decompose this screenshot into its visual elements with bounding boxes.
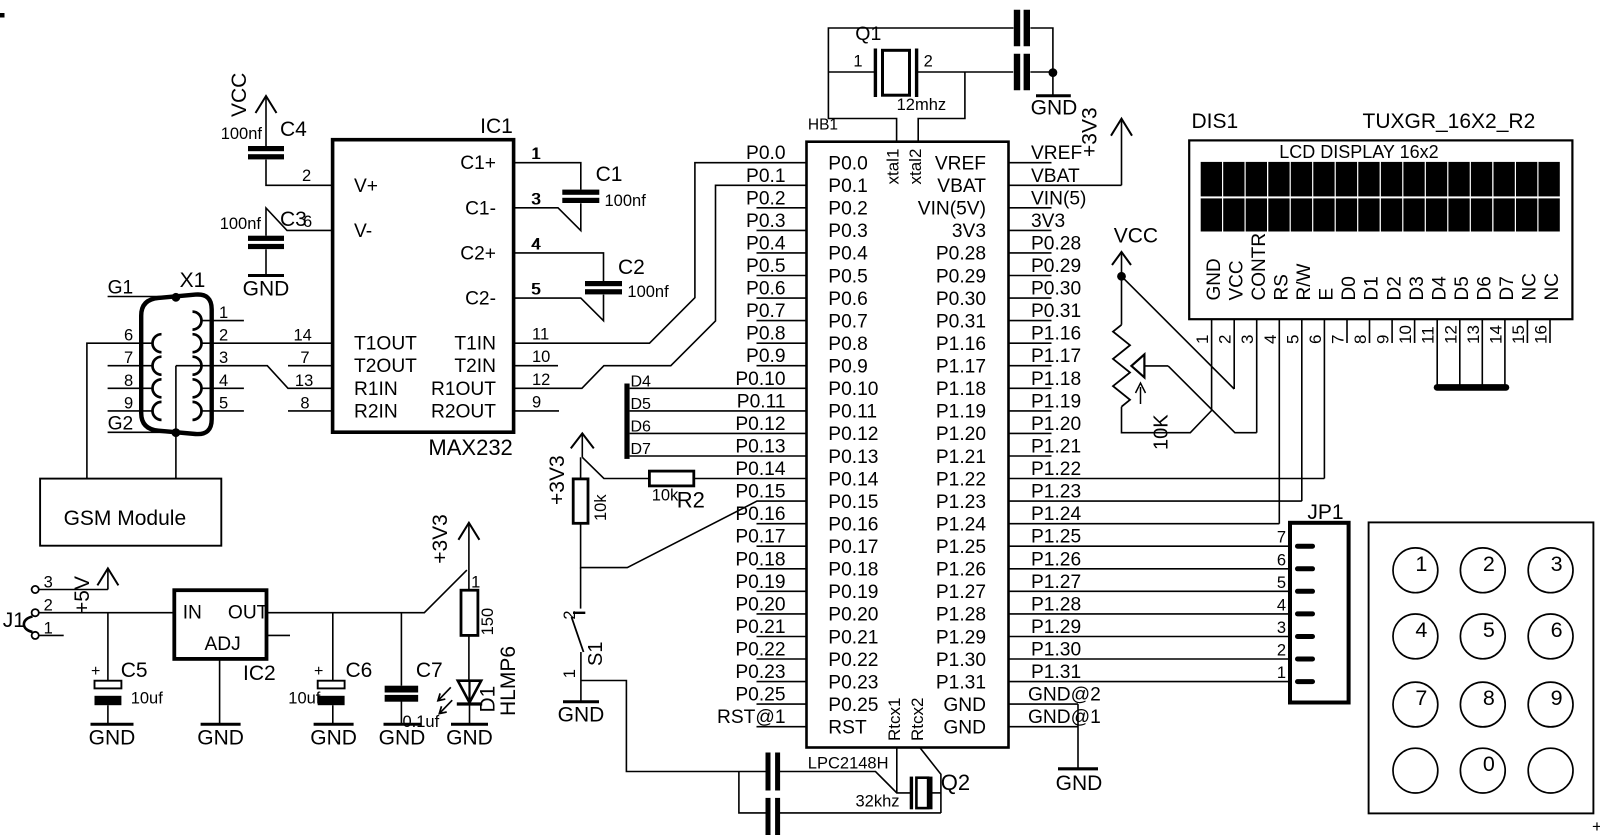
DIS1 pin name VCC bbox=[1226, 260, 1247, 300]
svg-text:5: 5 bbox=[1277, 574, 1286, 592]
LCD DISPLAY 16x2 text bbox=[1279, 142, 1438, 162]
svg-text:P0.6: P0.6 bbox=[746, 279, 785, 300]
capacitor C6 (electrolytic) bbox=[318, 681, 345, 706]
JP1 pin 5 contact bbox=[1298, 589, 1313, 594]
svg-text:4: 4 bbox=[531, 235, 540, 253]
U1 pin name GND (right) bbox=[943, 695, 986, 716]
svg-text:R2OUT: R2OUT bbox=[431, 401, 496, 422]
C2 label bbox=[618, 256, 645, 279]
capacitor C3 bbox=[248, 208, 307, 249]
svg-text:P1.21: P1.21 bbox=[1031, 437, 1081, 458]
X1 pin arc 6 bbox=[153, 334, 162, 352]
X1 pin number 4 bbox=[219, 372, 228, 390]
wire J1 pin2 to IC2 IN bbox=[39, 612, 175, 614]
IC2 pin name IN bbox=[183, 603, 202, 624]
wire IC1 C2+ pin 4 to C2 bbox=[514, 253, 604, 281]
net label P1.30 bbox=[1031, 640, 1081, 661]
bus bar D4-D7 bbox=[624, 384, 629, 459]
svg-text:P1.26: P1.26 bbox=[1031, 549, 1081, 570]
wire C7 top bbox=[400, 613, 402, 686]
X1 shield G2 label bbox=[108, 414, 134, 435]
svg-text:+: + bbox=[1592, 817, 1600, 835]
svg-text:P0.28: P0.28 bbox=[1031, 233, 1081, 254]
ground for U1 bbox=[1056, 769, 1103, 795]
net label P0.4 bbox=[746, 233, 786, 254]
DIS1 pin name NC bbox=[1520, 273, 1541, 300]
svg-text:P1.20: P1.20 bbox=[1031, 414, 1081, 435]
svg-text:VCC: VCC bbox=[1114, 225, 1158, 248]
svg-text:8: 8 bbox=[300, 394, 309, 412]
net label 3V3 bbox=[1031, 211, 1065, 232]
X1 pin number 7 bbox=[124, 349, 133, 367]
net label VREF bbox=[1031, 143, 1082, 164]
svg-text:V-: V- bbox=[354, 221, 372, 242]
svg-text:C1: C1 bbox=[596, 163, 623, 186]
S1 pin number 1 bbox=[561, 669, 579, 678]
wire crystal right bbox=[931, 792, 941, 794]
svg-text:P1.29: P1.29 bbox=[1031, 617, 1081, 638]
ground for C3 bbox=[243, 276, 290, 301]
svg-text:T2IN: T2IN bbox=[454, 356, 496, 377]
net label P0.1 bbox=[746, 166, 785, 187]
IC1 pin number 2 bbox=[302, 167, 311, 185]
svg-text:P0.13: P0.13 bbox=[735, 437, 785, 458]
IC1 pin name C2- bbox=[465, 289, 496, 310]
resistor value 150 bbox=[479, 608, 497, 636]
wire 3V3 stub bbox=[1009, 229, 1052, 231]
svg-text:P0.16: P0.16 bbox=[828, 515, 878, 536]
U1 pin name P0.20 bbox=[828, 605, 878, 626]
svg-text:P1.27: P1.27 bbox=[936, 582, 986, 603]
U1 pin name P0.9 bbox=[828, 357, 867, 378]
X1 label bbox=[180, 269, 206, 292]
svg-text:P1.28: P1.28 bbox=[1031, 594, 1081, 615]
svg-text:HLMP6: HLMP6 bbox=[497, 646, 520, 716]
U1 pin name VIN(5V) (right) bbox=[918, 199, 986, 220]
net label P1.26 bbox=[1031, 549, 1081, 570]
U1 pin name P1.28 (right) bbox=[936, 605, 986, 626]
X1 pin arc 8 bbox=[153, 379, 162, 397]
svg-text:P0.5: P0.5 bbox=[746, 256, 785, 277]
wire IC1 C1+ pin 1 to C1 bbox=[514, 163, 581, 190]
power flag +5V bbox=[71, 568, 119, 614]
keypad box bbox=[1369, 522, 1594, 813]
switch S1 bbox=[572, 613, 586, 652]
Q1 pin number 2 bbox=[924, 53, 933, 71]
svg-text:16: 16 bbox=[1532, 325, 1551, 344]
net label P1.25 bbox=[1031, 527, 1081, 548]
svg-text:GND@1: GND@1 bbox=[1028, 707, 1101, 728]
DIS1 pin name D7 bbox=[1497, 276, 1518, 300]
svg-text:P1.24: P1.24 bbox=[1031, 504, 1081, 525]
svg-text:P0.22: P0.22 bbox=[735, 640, 785, 661]
ground for C6 bbox=[310, 724, 357, 749]
wire DIS1 pin 11 bbox=[1436, 319, 1438, 387]
svg-text:RST: RST bbox=[828, 718, 867, 739]
keypad button 4 bbox=[1393, 614, 1438, 659]
U1 pin name P0.4 bbox=[828, 244, 868, 265]
net label P1.31 bbox=[1031, 662, 1081, 683]
DIS1 pin number 16 bbox=[1532, 325, 1551, 344]
svg-text:3: 3 bbox=[1238, 335, 1257, 344]
Q2 value 32khz bbox=[856, 793, 900, 811]
GSM Module label bbox=[64, 507, 187, 530]
U1 pin name Rtcx2 bbox=[908, 698, 927, 741]
svg-text:P0.1: P0.1 bbox=[746, 166, 785, 187]
wire DIS1 pin 13 bbox=[1481, 319, 1483, 387]
wire GND to symbol bbox=[1077, 704, 1079, 769]
C1 value 100nf bbox=[605, 192, 647, 210]
svg-text:P1.28: P1.28 bbox=[936, 605, 986, 626]
svg-text:7: 7 bbox=[300, 349, 309, 367]
svg-text:11: 11 bbox=[532, 326, 549, 344]
svg-text:R1OUT: R1OUT bbox=[431, 379, 496, 400]
JP1 pin number 1 bbox=[1277, 664, 1286, 682]
IC1 pin number 1 bbox=[532, 145, 541, 163]
svg-text:100nf: 100nf bbox=[627, 283, 669, 301]
J1 pin number 1 bbox=[44, 619, 53, 637]
power flag +3V3 at S1 bbox=[546, 433, 594, 505]
svg-text:P0.3: P0.3 bbox=[828, 221, 867, 242]
svg-text:14: 14 bbox=[1486, 325, 1505, 344]
wire RS to P1.24 bbox=[1009, 523, 1280, 525]
IC1 pin number 4 bbox=[531, 235, 540, 253]
U1 pin name P0.31 (right) bbox=[936, 311, 986, 332]
MCU value LPC2148H bbox=[808, 755, 889, 773]
keypad button 3 bbox=[1528, 548, 1573, 593]
U1 pin name P0.13 bbox=[828, 447, 878, 468]
wire C7 to ground bbox=[400, 699, 402, 724]
DIS1 pin number 15 bbox=[1509, 325, 1528, 344]
svg-text:VREF: VREF bbox=[935, 154, 986, 175]
IC1 pin number 3 bbox=[532, 190, 541, 208]
JP1 pin number 6 bbox=[1277, 551, 1286, 569]
svg-text:P0.22: P0.22 bbox=[828, 650, 878, 671]
svg-text:D4: D4 bbox=[1429, 276, 1450, 301]
svg-text:P0.4: P0.4 bbox=[828, 244, 868, 265]
net label P1.21 bbox=[1031, 437, 1081, 458]
LCD character cells bbox=[1201, 162, 1560, 232]
IC1 pin name T1IN bbox=[454, 334, 496, 355]
svg-text:P0.23: P0.23 bbox=[735, 662, 785, 683]
svg-text:Rtcx2: Rtcx2 bbox=[908, 698, 927, 741]
svg-text:10uf: 10uf bbox=[288, 690, 321, 708]
JP1 pin 3 contact bbox=[1298, 634, 1313, 639]
net label GND@1 bbox=[1028, 707, 1101, 728]
wire VCC to pot bbox=[1121, 276, 1123, 325]
C5 value 10uf bbox=[131, 690, 164, 708]
wire P0.20 stub bbox=[757, 613, 807, 615]
svg-text:P0.30: P0.30 bbox=[1031, 279, 1081, 300]
resistor R2 body bbox=[649, 471, 693, 486]
svg-text:2: 2 bbox=[924, 53, 933, 71]
U1 pin name P0.14 bbox=[828, 469, 878, 490]
svg-text:C1-: C1- bbox=[465, 198, 496, 219]
svg-text:V+: V+ bbox=[354, 176, 378, 197]
svg-text:D4: D4 bbox=[631, 374, 652, 391]
net label P0.25 bbox=[735, 685, 785, 706]
svg-text:D1: D1 bbox=[1362, 276, 1383, 300]
DIS1 pin name R/W bbox=[1294, 264, 1315, 301]
svg-text:150: 150 bbox=[479, 608, 497, 636]
svg-text:D2: D2 bbox=[1384, 276, 1405, 300]
net label P0.6 bbox=[746, 279, 785, 300]
wire pot bottom to LCD pin1 bbox=[1122, 407, 1212, 433]
resistor 10k body bbox=[573, 479, 588, 523]
wire S1 junction to caps bbox=[581, 681, 766, 772]
wire P0.23 stub bbox=[757, 681, 807, 683]
net label P0.11 bbox=[737, 391, 786, 412]
svg-text:P0.8: P0.8 bbox=[828, 334, 867, 355]
svg-text:DIS1: DIS1 bbox=[1192, 110, 1239, 133]
svg-text:P1.29: P1.29 bbox=[936, 627, 986, 648]
svg-text:P1.23: P1.23 bbox=[936, 492, 986, 513]
DIS1 pin name NC bbox=[1542, 273, 1563, 300]
svg-text:14: 14 bbox=[294, 327, 312, 345]
wire +3V3 to 10k bbox=[580, 457, 582, 479]
IC1 pin name V+ bbox=[354, 176, 378, 197]
node VCC junction bbox=[1117, 272, 1126, 281]
wire P0.21 stub bbox=[757, 636, 807, 638]
IC1 pin name C1- bbox=[465, 198, 496, 219]
net label P0.20 bbox=[735, 594, 785, 615]
ground for C5 bbox=[89, 724, 136, 749]
U1 pin name P0.3 bbox=[828, 221, 867, 242]
svg-text:7: 7 bbox=[1277, 529, 1286, 547]
X1 pin arc 3 bbox=[193, 357, 202, 375]
wire D4 to U1 bbox=[630, 387, 807, 389]
ground for D1 bbox=[446, 724, 493, 749]
net label P0.22 bbox=[735, 640, 785, 661]
net label P1.16 bbox=[1031, 324, 1081, 345]
svg-text:P0.30: P0.30 bbox=[936, 289, 986, 310]
wire R1OUT to P0.1 bbox=[514, 185, 807, 388]
IC1 pin name R2OUT bbox=[431, 401, 496, 422]
X1 pin number 2 bbox=[219, 327, 228, 345]
X1 pin number 8 bbox=[124, 372, 133, 390]
wire X1 pin4 stub bbox=[203, 387, 244, 389]
svg-text:xtal1: xtal1 bbox=[884, 149, 903, 185]
net label D7 bbox=[631, 441, 652, 458]
svg-text:1: 1 bbox=[219, 304, 228, 322]
svg-text:E: E bbox=[1317, 288, 1338, 301]
net label P0.16 bbox=[735, 504, 785, 525]
wire P1.210 to JP1 pin 2 bbox=[1009, 658, 1291, 660]
svg-text:P0.18: P0.18 bbox=[735, 549, 785, 570]
DIS1 pin number 13 bbox=[1464, 325, 1483, 344]
svg-text:P1.30: P1.30 bbox=[1031, 640, 1081, 661]
svg-text:1: 1 bbox=[561, 669, 579, 678]
svg-text:P1.19: P1.19 bbox=[1031, 391, 1081, 412]
wire P0.2 stub bbox=[757, 207, 807, 209]
svg-text:9: 9 bbox=[1374, 335, 1393, 344]
capacitor C2 bbox=[585, 281, 622, 294]
U1 pin name 3V3 (right) bbox=[952, 221, 986, 242]
svg-text:15: 15 bbox=[1509, 325, 1528, 344]
node G1 junction bbox=[172, 293, 181, 302]
wire P0.16 stub bbox=[757, 523, 807, 525]
net label D6 bbox=[631, 419, 652, 436]
X1 pin number 6 bbox=[124, 327, 133, 345]
U1 pin name RST bbox=[828, 718, 867, 739]
wire DIS1 pin 10 bbox=[1414, 319, 1416, 343]
wire X1 pin7 bbox=[108, 365, 152, 367]
wire DIS1 pin 8 bbox=[1369, 319, 1371, 343]
svg-text:6: 6 bbox=[1277, 551, 1286, 569]
net label P0.2 bbox=[746, 188, 785, 209]
svg-text:2: 2 bbox=[1216, 335, 1235, 344]
resistor 150 body bbox=[461, 590, 478, 635]
wire Q1 pin1 bbox=[828, 71, 875, 73]
wire P1.26 to JP1 pin 6 bbox=[1009, 568, 1291, 570]
net label VIN(5) bbox=[1031, 188, 1086, 209]
microcontroller U1 LPC2148 body bbox=[807, 142, 1009, 748]
wire P0.17 stub bbox=[757, 545, 807, 547]
wire C3 to IC1 V- pin 6 bbox=[266, 208, 333, 236]
wire G1 bbox=[108, 296, 176, 298]
S1 label bbox=[585, 642, 607, 666]
X1 pin arc 5 bbox=[193, 402, 202, 420]
U1 pin name P0.25 bbox=[828, 695, 878, 716]
wire GND@1 bbox=[1009, 726, 1079, 728]
svg-text:X1: X1 bbox=[180, 269, 206, 292]
svg-text:0: 0 bbox=[1483, 752, 1495, 776]
wire D7 to U1 bbox=[630, 455, 807, 457]
DIS1 pin number 8 bbox=[1351, 335, 1370, 344]
net label P1.23 bbox=[1031, 482, 1081, 503]
IC1 pin number 12 bbox=[532, 371, 550, 389]
wire S1 pin1 bbox=[580, 652, 582, 681]
svg-text:P0.3: P0.3 bbox=[746, 211, 785, 232]
pot value 10K bbox=[1150, 414, 1172, 450]
net label P0.10 bbox=[735, 369, 785, 390]
Q2 label bbox=[941, 770, 970, 795]
U1 pin name P0.16 bbox=[828, 515, 878, 536]
svg-text:NC: NC bbox=[1542, 273, 1563, 300]
X1 pin arc 1 bbox=[193, 312, 202, 330]
net label GND@2 bbox=[1028, 685, 1101, 706]
wire DIS1 pin 4 bbox=[1278, 319, 1280, 524]
svg-text:P0.11: P0.11 bbox=[737, 391, 786, 412]
IC1 pin number 9 bbox=[532, 393, 541, 411]
svg-text:GND: GND bbox=[943, 718, 986, 739]
keypad button 5 bbox=[1460, 614, 1505, 659]
wire Rtcx2 to crystal bbox=[920, 748, 941, 814]
net label P1.18 bbox=[1031, 369, 1081, 390]
U1 pin name P0.12 bbox=[828, 424, 878, 445]
svg-text:D5: D5 bbox=[1452, 276, 1473, 300]
wire IC2 ADJ to ground bbox=[219, 659, 221, 724]
svg-text:P0.25: P0.25 bbox=[828, 695, 878, 716]
C5 plus sign bbox=[91, 663, 100, 680]
wire resistor to LED bbox=[468, 635, 470, 680]
node G2 junction bbox=[172, 428, 181, 437]
svg-text:HB1: HB1 bbox=[808, 116, 838, 133]
wire S1 pin2 bbox=[580, 568, 582, 609]
wire DIS1 pin 12 bbox=[1459, 319, 1461, 387]
DIS1 pin number 6 bbox=[1306, 335, 1325, 344]
svg-text:C7: C7 bbox=[416, 659, 443, 682]
connector J1 label bbox=[3, 609, 25, 632]
wire DIS1 pin 3 bbox=[1256, 319, 1258, 433]
svg-text:+3V3: +3V3 bbox=[1079, 107, 1102, 157]
svg-text:GND: GND bbox=[379, 726, 426, 749]
svg-text:P0.7: P0.7 bbox=[746, 301, 785, 322]
IC1 pin name T2OUT bbox=[354, 356, 417, 377]
svg-text:P0.17: P0.17 bbox=[828, 537, 878, 558]
Q1 pin number 1 bbox=[853, 53, 862, 71]
net label P1.28 bbox=[1031, 594, 1081, 615]
X1 shield G1 label bbox=[108, 278, 134, 299]
IC1 pin name T2IN bbox=[454, 356, 496, 377]
svg-text:9: 9 bbox=[124, 394, 133, 412]
U1 pin name P0.22 bbox=[828, 650, 878, 671]
X1 pin number 1 bbox=[219, 304, 228, 322]
wire DIS1 pin 2 bbox=[1233, 319, 1235, 389]
net label P1.20 bbox=[1031, 414, 1081, 435]
svg-text:4: 4 bbox=[1277, 596, 1286, 614]
net label P0.23 bbox=[735, 662, 785, 683]
net label P1.29 bbox=[1031, 617, 1081, 638]
DIS1 pin number 1 bbox=[1193, 335, 1212, 344]
svg-text:IC1: IC1 bbox=[480, 115, 513, 138]
U1 pin name P0.29 (right) bbox=[936, 266, 986, 287]
svg-text:VIN(5V): VIN(5V) bbox=[918, 199, 986, 220]
wire T2OUT stub pin 7 bbox=[288, 365, 333, 367]
svg-text:P0.18: P0.18 bbox=[828, 560, 878, 581]
wire P0.4 stub bbox=[757, 252, 807, 254]
svg-text:8: 8 bbox=[124, 372, 133, 390]
svg-text:P0.15: P0.15 bbox=[828, 492, 878, 513]
svg-text:Rtcx1: Rtcx1 bbox=[885, 698, 904, 741]
svg-text:D7: D7 bbox=[1497, 276, 1518, 300]
JP1 pin 4 contact bbox=[1298, 611, 1313, 616]
wire P0.9 stub bbox=[757, 365, 807, 367]
C5 label bbox=[121, 659, 148, 682]
svg-text:3: 3 bbox=[1551, 552, 1563, 576]
ground for IC2 bbox=[197, 724, 244, 749]
net label P0.29 bbox=[1031, 256, 1081, 277]
IC1 pin number 11 bbox=[532, 326, 549, 344]
U1 pin name P0.18 bbox=[828, 560, 878, 581]
U1 pin name GND (right) bbox=[943, 718, 986, 739]
DIS1 pin number 4 bbox=[1261, 335, 1280, 344]
wire DIS1 pin 9 bbox=[1391, 319, 1393, 343]
wire P0.5 stub bbox=[757, 275, 807, 277]
svg-text:4: 4 bbox=[1261, 335, 1280, 344]
svg-text:P0.7: P0.7 bbox=[828, 311, 867, 332]
wire P1.21 stub bbox=[1009, 455, 1052, 457]
power flag VCC (net VCC) bbox=[228, 73, 277, 146]
U1 pin name P0.1 bbox=[828, 176, 867, 197]
svg-text:10uf: 10uf bbox=[131, 690, 164, 708]
wire P0.30 stub bbox=[1009, 297, 1052, 299]
svg-text:P1.23: P1.23 bbox=[1031, 482, 1081, 503]
svg-text:GND: GND bbox=[1031, 97, 1078, 120]
svg-text:D5: D5 bbox=[631, 396, 652, 413]
J1 pin number 2 bbox=[44, 597, 53, 615]
keypad button 1 bbox=[1393, 548, 1438, 593]
pot indicator arrow bbox=[1136, 383, 1146, 404]
wire P0.31 stub bbox=[1009, 320, 1052, 322]
net label P0.21 bbox=[735, 617, 785, 638]
svg-text:G2: G2 bbox=[108, 414, 134, 435]
keypad button 8 bbox=[1460, 682, 1505, 727]
wire T1IN to P0.0 bbox=[514, 163, 807, 344]
IC2 pin name OUT bbox=[228, 603, 269, 624]
U1 pin name Rtcx1 bbox=[885, 698, 904, 741]
DIS1 pin number 10 bbox=[1396, 325, 1415, 344]
